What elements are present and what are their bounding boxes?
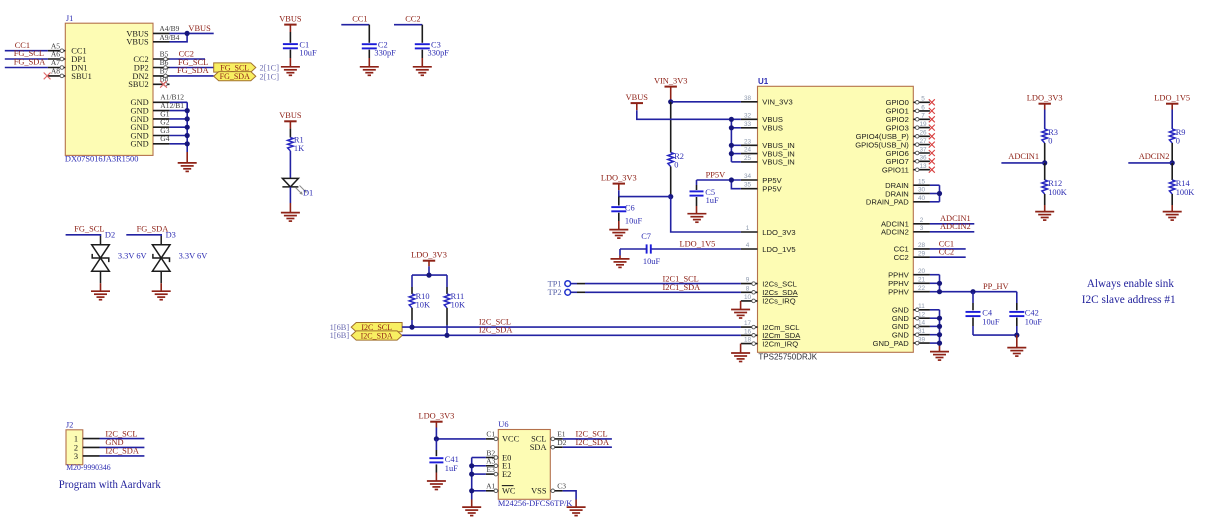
- ground C42: [1007, 348, 1026, 357]
- svg-text:LDO_1V5: LDO_1V5: [680, 239, 716, 248]
- IC U1 TPS25750DRJK: [758, 77, 914, 361]
- ground J1 GND: [178, 163, 197, 172]
- junction R10 / I2C_SCL: [409, 325, 414, 330]
- svg-text:Always enable sink: Always enable sink: [1087, 278, 1174, 290]
- svg-text:ADCIN2: ADCIN2: [1139, 152, 1170, 161]
- svg-text:PP5V: PP5V: [706, 171, 726, 180]
- svg-text:TP1: TP1: [548, 279, 562, 288]
- pin 2 of J2: [83, 446, 100, 448]
- wire CC1 to C2: [341, 24, 369, 26]
- svg-text:I2C_SDA: I2C_SDA: [576, 438, 610, 447]
- pin 18 I2Cm_IRQ of U1: [741, 337, 798, 349]
- junction VBUS rail: [729, 117, 734, 122]
- svg-text:35: 35: [744, 182, 752, 189]
- svg-text:I2C_SCL: I2C_SCL: [105, 429, 137, 438]
- svg-text:17: 17: [744, 320, 752, 327]
- power symbol VBUS at R1: [279, 111, 302, 121]
- svg-text:VIN_3V3: VIN_3V3: [654, 76, 688, 85]
- pin 19 GPIO3 of U1: [886, 121, 930, 132]
- svg-text:PPHV: PPHV: [888, 288, 910, 297]
- junction U1 GND bus: [937, 324, 942, 329]
- svg-text:I2Cs_IRQ: I2Cs_IRQ: [762, 297, 795, 306]
- svg-text:R12: R12: [1048, 179, 1062, 188]
- svg-text:36: 36: [919, 155, 927, 162]
- pin 31 GND of U1: [892, 328, 930, 340]
- ground D2: [91, 291, 110, 300]
- svg-text:2: 2: [920, 217, 924, 224]
- svg-text:LDO_1V5: LDO_1V5: [1154, 94, 1190, 103]
- wire FG_SCL to J1.A6: [5, 58, 48, 60]
- svg-text:I2C_SDA: I2C_SDA: [105, 447, 139, 456]
- svg-text:VBUS: VBUS: [762, 124, 783, 133]
- pin A3 E1 of U6: [486, 457, 511, 471]
- capacitor C6 10uF: [611, 197, 642, 230]
- svg-text:DRAIN_PAD: DRAIN_PAD: [866, 198, 909, 207]
- wire U1 pin 10 to ground: [740, 301, 742, 310]
- resistor R9 0: [1169, 104, 1185, 163]
- pin A7 of J1: [48, 58, 66, 69]
- svg-text:VBUS: VBUS: [126, 38, 149, 47]
- svg-text:39: 39: [918, 336, 926, 343]
- wire FG_SCL to D2: [66, 235, 101, 236]
- wire LDO_1V5 to U1 pin 4: [651, 248, 741, 250]
- TVS diode D2 3.3V 6V: [92, 231, 147, 292]
- svg-text:PP5V: PP5V: [762, 176, 782, 185]
- svg-text:D1: D1: [303, 188, 313, 197]
- junction PP5V: [729, 177, 734, 182]
- svg-text:ADCIN2: ADCIN2: [940, 222, 971, 231]
- svg-text:28: 28: [918, 242, 926, 249]
- svg-text:0: 0: [1176, 136, 1180, 145]
- svg-text:10: 10: [744, 294, 752, 301]
- junction LDO_3V3 / R2: [668, 194, 673, 199]
- junction GND bus: [185, 108, 190, 113]
- svg-text:D2: D2: [105, 231, 115, 240]
- pin B5 of J1: [153, 49, 170, 60]
- pin B8 of J1: [153, 75, 170, 86]
- no-connect X on U1 pin 27: [929, 142, 935, 148]
- svg-text:21: 21: [918, 277, 926, 284]
- svg-text:33: 33: [744, 121, 752, 128]
- junction VBUS pins: [185, 31, 190, 36]
- svg-text:A9/B4: A9/B4: [159, 33, 179, 42]
- wire U6 E0/E1/E2/WC tie to ground: [472, 458, 486, 508]
- pin 36 GPIO7 of U1: [886, 155, 930, 166]
- svg-text:C6: C6: [625, 203, 635, 212]
- svg-text:2[1C]: 2[1C]: [260, 64, 280, 73]
- LED D1: [282, 178, 313, 212]
- svg-text:7: 7: [921, 113, 925, 120]
- ground R12: [1035, 212, 1054, 221]
- svg-text:1: 1: [74, 435, 78, 444]
- pin 9 I2Cs_SCL of U1: [741, 277, 797, 289]
- no-connect X on U1 pin 7: [929, 116, 935, 122]
- wire I2C1_SDA TP2 to U1 pin 8: [585, 291, 741, 293]
- svg-text:A4/B9: A4/B9: [159, 24, 179, 33]
- power symbol VBUS at C1: [279, 14, 302, 24]
- resistor R2 0: [668, 102, 684, 197]
- ground R14: [1163, 212, 1182, 221]
- power symbol LDO_3V3 at U6: [418, 412, 454, 422]
- wire R2 to U1 pin 1: [671, 197, 741, 232]
- ground U1 GND: [930, 352, 949, 361]
- pin A6 of J1: [48, 50, 66, 61]
- junction R10/R11 tee: [426, 273, 431, 278]
- junction VBUS rail: [729, 143, 734, 148]
- test point TP1: [548, 279, 585, 288]
- svg-text:M20-9990346: M20-9990346: [66, 463, 110, 472]
- svg-text:J1: J1: [66, 14, 73, 23]
- svg-text:FG_SDA: FG_SDA: [177, 66, 209, 75]
- junction U1 GND bus: [937, 316, 942, 321]
- wire FG_SDA from J1.B7 DN2: [170, 75, 214, 77]
- pin 5 GPIO0 of U1: [886, 96, 930, 107]
- wire J1 GND bus: [170, 102, 188, 163]
- svg-text:22: 22: [918, 285, 926, 292]
- svg-text:330pF: 330pF: [428, 49, 450, 58]
- pin A4/B9 of J1: [153, 24, 180, 34]
- resistor R3 0: [1042, 104, 1058, 163]
- pin 7 GPIO2 of U1: [886, 113, 930, 124]
- ground D1: [281, 213, 300, 222]
- svg-text:1K: 1K: [294, 144, 304, 153]
- pin A1 WC of U6: [486, 482, 516, 496]
- pin A8 of J1: [48, 67, 66, 78]
- svg-text:VBUS: VBUS: [279, 111, 302, 120]
- wire LDO_3V3 to U6 VCC: [436, 422, 486, 439]
- svg-text:10K: 10K: [416, 300, 430, 309]
- svg-text:1uF: 1uF: [706, 196, 719, 205]
- junction GND bus: [185, 133, 190, 138]
- svg-text:2[1C]: 2[1C]: [260, 72, 280, 81]
- junction ADCIN2 divider: [1170, 160, 1175, 165]
- junction PPHV 2: [937, 289, 942, 294]
- svg-text:CC2: CC2: [405, 14, 420, 23]
- junction R11 / I2C_SDA: [444, 333, 449, 338]
- pin 4 LDO_1V5 of U1: [741, 242, 796, 254]
- pin 28 CC1 of U1: [894, 242, 930, 254]
- svg-text:330pF: 330pF: [374, 49, 396, 58]
- pin B2 E0 of U6: [486, 448, 511, 462]
- resistor R11 10K: [444, 275, 465, 335]
- svg-text:34: 34: [744, 173, 752, 180]
- no-connect X on U1 pin 13: [929, 167, 935, 173]
- junction ADCIN1 divider: [1042, 160, 1047, 165]
- svg-text:12: 12: [918, 311, 926, 318]
- wire I2C_SCL from J2 pin 1: [100, 438, 145, 440]
- wire I2C_SDA to U1 pin 16: [402, 334, 741, 336]
- wire FG_SDA to D3: [126, 235, 161, 236]
- svg-text:LDO_1V5: LDO_1V5: [762, 245, 795, 254]
- capacitor C4 10uF: [966, 292, 1000, 335]
- svg-text:6: 6: [921, 104, 925, 111]
- wire CC1 to J1.A5: [5, 50, 48, 52]
- ground C41: [427, 481, 446, 490]
- svg-text:VCC: VCC: [502, 435, 520, 444]
- svg-text:30: 30: [918, 187, 926, 194]
- junction DRAIN: [937, 191, 942, 196]
- pin G1 of J1: [153, 109, 170, 119]
- pin 16 I2Cm_SDA of U1: [741, 328, 801, 340]
- pin 39 GND_PAD of U1: [873, 336, 930, 348]
- capacitor C2 330pF: [362, 25, 396, 67]
- TVS diode D3 3.3V 6V: [152, 231, 207, 292]
- junction U6 E-pin tie: [469, 488, 474, 493]
- ground U6 E pins: [462, 507, 481, 515]
- svg-text:4: 4: [746, 242, 750, 249]
- resistor R10 10K: [409, 275, 430, 327]
- wire CC2 from U1 pin 29: [930, 256, 966, 258]
- power symbol LDO_3V3 at R10/R11: [411, 251, 447, 261]
- svg-text:C3: C3: [557, 482, 566, 491]
- wire J1 VBUS pin A4/B9 to VBUS net: [170, 32, 214, 34]
- svg-text:3.3V 6V: 3.3V 6V: [179, 252, 208, 261]
- svg-text:TPS25750DRJK: TPS25750DRJK: [758, 352, 817, 361]
- no-connect X on U1 pin 5: [929, 99, 935, 105]
- pin 40 DRAIN_PAD of U1: [866, 195, 930, 207]
- svg-text:LDO_3V3: LDO_3V3: [411, 251, 447, 260]
- svg-text:LDO_3V3: LDO_3V3: [762, 228, 795, 237]
- svg-text:FG_SDA: FG_SDA: [220, 72, 250, 81]
- pin 38 VIN_3V3 of U1: [741, 95, 793, 107]
- svg-text:DX07S016JA3R1500: DX07S016JA3R1500: [65, 154, 139, 163]
- wire U6 VSS to ground: [563, 491, 576, 500]
- no-connect X on U1 pin 26: [929, 133, 935, 139]
- wire R1 to D1: [289, 151, 291, 179]
- svg-text:I2C_SDA: I2C_SDA: [479, 326, 513, 335]
- pin E1 SCL of U6: [531, 430, 566, 444]
- wire J1 VBUS pin A9/B4 up to VBUS: [170, 33, 188, 41]
- svg-text:26: 26: [919, 130, 927, 137]
- svg-text:8: 8: [746, 285, 750, 292]
- svg-text:16: 16: [744, 328, 752, 335]
- test point TP2: [548, 288, 585, 297]
- ground C3: [413, 67, 432, 76]
- svg-text:A8: A8: [51, 67, 60, 76]
- svg-text:VBUS: VBUS: [188, 24, 211, 33]
- svg-text:VBUS: VBUS: [279, 14, 302, 23]
- junction U1 GND bus: [937, 332, 942, 337]
- wire U1 DRAIN pins tied: [930, 185, 940, 202]
- pin A5 of J1: [48, 41, 66, 52]
- wire VIN_3V3 to U1 pin 38: [671, 101, 741, 103]
- junction GND bus: [185, 116, 190, 121]
- junction C42 / ground: [1014, 333, 1019, 338]
- wire VIN_3V3 vertical: [670, 87, 672, 102]
- svg-text:FG_SDA: FG_SDA: [137, 224, 169, 233]
- svg-text:10uF: 10uF: [1025, 318, 1043, 327]
- wire I2C_SDA from J2 pin 3: [100, 455, 145, 457]
- svg-text:FG_SCL: FG_SCL: [74, 224, 104, 233]
- wire LDO_3V3 to R10 R11: [412, 261, 447, 275]
- junction PP_HV / C4: [970, 289, 975, 294]
- no-connect X on J1.A8 SBU1: [44, 73, 51, 80]
- svg-text:C42: C42: [1025, 308, 1039, 317]
- svg-text:25: 25: [744, 155, 752, 162]
- wire FG_SCL from J1.B6 DP2: [170, 67, 214, 69]
- junction GND bus: [185, 125, 190, 130]
- pin C3 VSS of U6: [531, 482, 566, 496]
- pin D2 SDA of U6: [530, 438, 567, 452]
- no-connect X on U1 pin 37: [929, 150, 935, 156]
- pin 24 VBUS_IN of U1: [741, 147, 795, 159]
- pin C1 VCC of U6: [486, 430, 520, 444]
- svg-text:10uF: 10uF: [643, 257, 661, 266]
- capacitor C42 10uF: [1009, 292, 1042, 335]
- capacitor C3 330pF: [415, 25, 449, 67]
- pin 26 GPIO4(USB_P) of U1: [856, 130, 930, 141]
- svg-text:J2: J2: [66, 421, 73, 430]
- pin G3 of J1: [153, 126, 170, 136]
- svg-text:1: 1: [746, 225, 750, 232]
- connector J1 DX07S016JA3R1500: [65, 14, 153, 163]
- svg-text:GPIO3: GPIO3: [886, 123, 909, 132]
- wire U1 GND bus: [930, 310, 940, 352]
- svg-text:SBU2: SBU2: [128, 80, 148, 89]
- ground C5: [687, 214, 706, 223]
- svg-text:LDO_3V3: LDO_3V3: [418, 412, 454, 421]
- pin G2 of J1: [153, 118, 170, 128]
- pin 34 PP5V of U1: [741, 173, 783, 185]
- wire ADCIN1 from U1 pin 2: [930, 223, 974, 225]
- wire I2C_SCL from U6 SCL: [563, 438, 612, 440]
- pin 3 of J2: [83, 455, 100, 457]
- svg-text:A1: A1: [486, 482, 495, 491]
- pin 22 PPHV of U1: [888, 285, 930, 297]
- ground U1 I2Cs_IRQ: [731, 310, 750, 319]
- svg-text:100K: 100K: [1176, 188, 1195, 197]
- svg-text:C7: C7: [641, 232, 651, 241]
- wire CC2 to C3: [394, 24, 422, 26]
- svg-text:G4: G4: [160, 134, 169, 143]
- svg-text:1uF: 1uF: [445, 464, 458, 473]
- wire ADCIN1 stub: [1001, 162, 1044, 164]
- svg-text:C1: C1: [486, 430, 495, 439]
- svg-text:C4: C4: [982, 308, 993, 317]
- svg-text:10uF: 10uF: [982, 318, 1000, 327]
- svg-text:0: 0: [1048, 136, 1052, 145]
- capacitor C41 1uF: [429, 439, 458, 481]
- wire I2C1_SCL TP1 to U1 pin 9: [585, 283, 741, 285]
- pin E3 E2 of U6: [486, 465, 511, 479]
- pin 29 CC2 of U1: [894, 250, 930, 262]
- resistor R14 100K: [1169, 163, 1194, 212]
- svg-text:I2Cs_SCL: I2Cs_SCL: [762, 279, 797, 288]
- svg-text:100K: 100K: [1048, 188, 1067, 197]
- svg-text:C41: C41: [445, 455, 459, 464]
- resistor R1 1K: [288, 121, 305, 153]
- junction VBUS rail: [729, 151, 734, 156]
- wire C4 to C42 bottom: [973, 334, 1017, 336]
- junction GND bus: [185, 141, 190, 146]
- wire I2C_SCL to U1 pin 17: [402, 326, 741, 328]
- pin A1/B12 of J1: [153, 93, 184, 103]
- wire U1 pin 18 to ground: [740, 344, 742, 353]
- ground U1 I2Cm_IRQ: [731, 353, 750, 362]
- resistor R12 100K: [1042, 163, 1067, 212]
- power symbol VBUS at U1: [626, 93, 649, 103]
- capacitor C1 10uF: [283, 25, 317, 67]
- no-connect X on U1 pin 6: [929, 108, 935, 114]
- svg-text:5: 5: [921, 96, 925, 103]
- power symbol LDO_1V5 at R9: [1154, 94, 1190, 104]
- pin 33 VBUS of U1: [741, 121, 783, 133]
- svg-text:U6: U6: [498, 420, 508, 429]
- svg-text:40: 40: [918, 195, 926, 202]
- connector J2 M20-9990346: [66, 421, 111, 472]
- wire PP5V to U1 pins 34/35: [697, 180, 741, 189]
- svg-text:3.3V 6V: 3.3V 6V: [118, 252, 147, 261]
- sheet port I2C_SCL: [351, 323, 402, 333]
- svg-text:E2: E2: [502, 470, 511, 479]
- pin 6 GPIO1 of U1: [886, 104, 930, 115]
- svg-text:18: 18: [744, 337, 752, 344]
- wire GND from J2 pin 2: [100, 446, 145, 448]
- junction U6 E-pin tie: [469, 472, 474, 477]
- pin 10 I2Cs_IRQ of U1: [741, 294, 796, 306]
- svg-text:I2C1_SCL: I2C1_SCL: [663, 274, 699, 283]
- svg-text:CC1: CC1: [352, 14, 367, 23]
- junction U1 GND bus: [937, 341, 942, 346]
- pin 21 PPHV of U1: [888, 277, 930, 289]
- svg-text:15: 15: [918, 178, 926, 185]
- svg-text:PP_HV: PP_HV: [983, 282, 1009, 291]
- svg-text:SDA: SDA: [530, 443, 547, 452]
- svg-text:VSS: VSS: [531, 487, 547, 496]
- pin 25 VBUS_IN of U1: [741, 155, 795, 167]
- wire VBUS to U1 VBUS pins: [637, 103, 741, 162]
- svg-text:31: 31: [918, 328, 926, 335]
- svg-text:ADCIN2: ADCIN2: [881, 228, 909, 237]
- wire CC1 from U1 pin 28: [930, 248, 966, 250]
- svg-text:38: 38: [744, 95, 752, 102]
- svg-text:10uF: 10uF: [625, 216, 643, 225]
- ground U6 VSS: [567, 507, 586, 515]
- wire C42 to ground: [1016, 335, 1018, 348]
- pin A9/B4 of J1: [153, 33, 180, 42]
- pin 13 GPIO11 of U1: [882, 163, 930, 174]
- pin 12 GND of U1: [892, 311, 930, 323]
- ground C2: [360, 67, 379, 76]
- power symbol LDO_3V3 at R3: [1027, 94, 1063, 104]
- wire I2C_SDA from U6 SDA: [563, 446, 612, 448]
- no-connect X on U1 pin 19: [929, 125, 935, 131]
- svg-text:CC2: CC2: [894, 253, 909, 262]
- junction VBUS rail: [729, 125, 734, 130]
- svg-text:GPIO11: GPIO11: [882, 166, 909, 175]
- svg-text:I2C1_SDA: I2C1_SDA: [663, 283, 701, 292]
- power symbol LDO_3V3 at C6: [601, 173, 637, 183]
- svg-text:GND: GND: [131, 140, 149, 149]
- ground C7: [611, 259, 630, 268]
- pin B6 of J1: [153, 58, 170, 69]
- svg-text:3: 3: [74, 452, 78, 461]
- svg-text:D3: D3: [166, 231, 176, 240]
- svg-text:VIN_3V3: VIN_3V3: [762, 98, 792, 107]
- sheet port FG_SDA: [214, 72, 256, 82]
- ground C6: [609, 230, 628, 239]
- sheet port I2C_SDA: [351, 331, 402, 341]
- pin 35 PP5V of U1: [741, 182, 783, 194]
- svg-text:Program with Aardvark: Program with Aardvark: [59, 477, 161, 491]
- pin 1 LDO_3V3 of U1: [741, 225, 796, 237]
- svg-text:9: 9: [746, 277, 750, 284]
- svg-text:R14: R14: [1176, 179, 1191, 188]
- ground D3: [152, 291, 171, 300]
- svg-text:ADCIN1: ADCIN1: [1008, 152, 1039, 161]
- junction VIN_3V3 / pin38: [668, 99, 673, 104]
- pin 23 VBUS_IN of U1: [741, 138, 795, 150]
